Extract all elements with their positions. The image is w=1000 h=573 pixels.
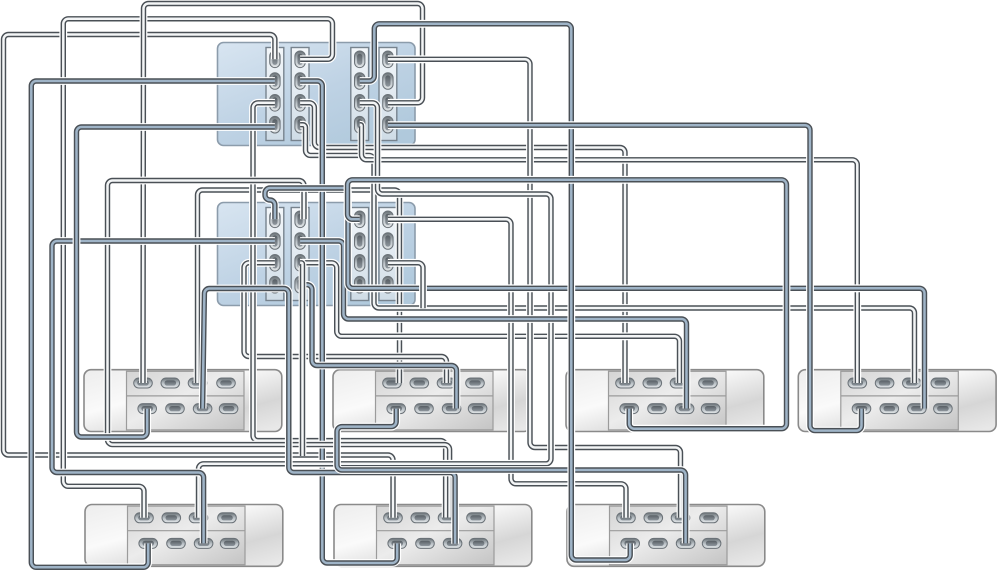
disk shelf 7 (DE2-24): [567, 505, 765, 567]
cable controller2 HBA4-P3 stub: [388, 263, 423, 308]
cable controller2 HBA1-P3 to shelf2 top P3: [244, 263, 447, 383]
cable shelf3 bottom P1 to controller2 HBA3-P1: [348, 180, 787, 429]
cable controller1 HBA2-P4 to shelf4 top P3: [300, 125, 914, 383]
cable shelf1 top P3 to shelf2 top P1: [198, 190, 400, 383]
disk shelf 3 (DE2-24): [566, 370, 764, 432]
controller 1 HBA3 card: [351, 48, 369, 141]
cable controller2 HBA1-P1 to shelf4 bottom P3: [265, 188, 925, 409]
controller 1 HBA1 card: [266, 48, 284, 141]
controller 2 HBA2 card: [291, 208, 309, 301]
cable controller1 HBA1-P4 to shelf1 bottom P1: [77, 127, 275, 437]
cable controller1 HBA2-P2 to shelf6 bottom P1: [300, 81, 397, 563]
cable controller1 HBA1-P2 to shelf5 bottom P1: [31, 81, 275, 567]
cable controller1 HBA3-P2 to shelf7 bottom P1: [360, 24, 631, 560]
cable controller2 HBA2-P3 to shelf3 top P3: [300, 263, 679, 383]
cable controller1 HBA4-P3 to shelf1 top P1: [143, 4, 423, 384]
cable shelf1 bottom P3 to shelf6 bottom P3: [203, 288, 456, 543]
controller 2 HBA1 card: [266, 208, 284, 301]
disk shelf 4 (DE2-24): [798, 370, 996, 432]
disk shelf 5 (DE2-24): [85, 505, 283, 567]
cable controller2 HBA2-P3 stub: [300, 263, 302, 456]
cable controller1 HBA3-P3 to shelf5 top P3: [199, 103, 552, 518]
cable controller1 HBA1-P3 to shelf6 top P3: [253, 103, 446, 518]
cable controller1 HBA3-P4 to shelf4 top P1: [360, 125, 858, 383]
cable controller2 HBA1-P2 to shelf5 bottom P3: [52, 241, 275, 543]
disk shelf 6 (DE2-24): [334, 505, 532, 567]
controller 1 HBA4 card: [379, 48, 397, 141]
cable controller1 HBA2-P1 to shelf5 top P1: [63, 19, 332, 518]
controller 2 HBA4 card: [379, 208, 397, 301]
cable controller2 HBA4-P1 to shelf7 top P1: [388, 219, 626, 518]
disk shelf 2 (DE2-24): [333, 370, 531, 432]
controller 2 (ZS4-4): [218, 203, 416, 306]
cable controller1 HBA1-P1 to shelf6 top P1: [4, 35, 394, 518]
cable shelf2 bottom P1 to shelf7 bottom P3: [337, 409, 686, 544]
cable controller2 HBA2-P2 to shelf3 bottom P3: [300, 241, 686, 409]
controller 2 HBA3 card: [351, 208, 369, 301]
disk shelf 1 (DE2-24): [84, 370, 282, 432]
cable controller1 HBA4-P4 to shelf4 bottom P1: [388, 125, 862, 430]
controller 1 (ZS4-4): [218, 43, 416, 146]
cable controller2 HBA2-P1 to shelf6 top P3 lane: [108, 181, 450, 518]
cable controller2 HBA2-P4 to shelf2 bottom P3: [300, 285, 456, 409]
controller 1 HBA2 card: [291, 48, 309, 141]
cable controller1 HBA4-P1 to shelf7 top P3: [388, 59, 681, 518]
cable controller1 HBA2-P3 to shelf3 top P1: [300, 103, 625, 383]
